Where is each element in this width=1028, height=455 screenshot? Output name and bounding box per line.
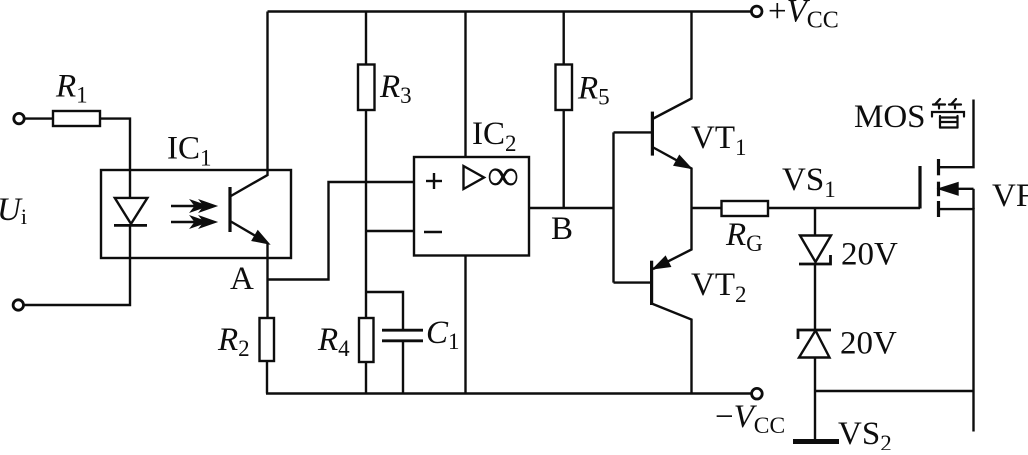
wire gate node to VS1 (814, 208, 816, 236)
wire +Vcc to IC2 (464, 12, 466, 158)
phototransistor emitter (230, 221, 268, 243)
transistor VT1 collector (652, 12, 691, 120)
wire base bus (612, 132, 614, 282)
wire RG to gate (768, 207, 920, 209)
wire +Vcc to R3 (365, 12, 367, 65)
resistor R3 (358, 65, 375, 111)
terminal +Vcc (751, 6, 762, 17)
wire R4 to -Vcc rail (365, 362, 367, 394)
svg-text:20V: 20V (840, 326, 897, 362)
light arrow lower (171, 221, 202, 223)
mosfet VF body-source link (972, 189, 974, 209)
wire VT1 base (614, 131, 653, 133)
wire inverting input (366, 230, 414, 232)
svg-text:A: A (230, 261, 254, 297)
mosfet VF drain (939, 100, 974, 168)
wire +Vcc to R5 (563, 12, 565, 65)
phototransistor base bar (228, 187, 231, 232)
mosfet VF body arrow (939, 188, 974, 190)
phototransistor collector (230, 12, 268, 197)
resistor RG (722, 201, 769, 216)
wire VS1 to VS2 (814, 264, 816, 330)
terminal input top (14, 113, 24, 123)
wire R1 to IC1 LED anode (100, 119, 130, 198)
wire VT2 base (614, 281, 652, 283)
transistor VT2 emitter (653, 208, 692, 269)
transistor VT2 base bar (650, 261, 653, 305)
mosfet VF gate bar (918, 166, 921, 209)
svg-text:B: B (551, 211, 573, 247)
wire zener junction to MOS source (815, 390, 974, 392)
wire R5 to node B (563, 110, 565, 208)
terminal bar below VS2 (793, 439, 839, 444)
terminal -Vcc (752, 388, 763, 399)
wire emitter to node A to R2 (266, 243, 268, 318)
minus sign input (424, 231, 442, 233)
resistor R4 (359, 318, 374, 362)
wire emitters to RG (692, 207, 722, 209)
wire input top to R1 (25, 117, 54, 119)
mosfet VF source (939, 209, 974, 431)
resistor R2 (260, 318, 275, 361)
transistor VT1 emitter (652, 147, 691, 208)
wire R3 to R4 (365, 110, 367, 318)
wire input bottom to LED cathode (24, 225, 130, 305)
op-to-coupler box IC1 (101, 170, 291, 258)
wire C1 to -Vcc rail (402, 341, 404, 394)
node A wire to comparator (268, 182, 415, 280)
zener VS1 (800, 236, 831, 263)
terminal input bottom (13, 300, 23, 310)
mosfet VF channel segments (937, 159, 940, 175)
comparator box IC2 (414, 157, 529, 256)
han glyph guan (tube) (932, 99, 964, 128)
wire branch to C1 (366, 292, 403, 330)
wire IC2 output node B (529, 207, 614, 209)
plus sign input (426, 180, 442, 182)
transistor VT1 base bar (651, 112, 654, 156)
transistor VT2 collector (652, 304, 692, 394)
wire VS2 down (814, 358, 816, 442)
wire R2 to -Vcc rail (266, 361, 268, 394)
wire IC2 to -Vcc rail (464, 256, 466, 394)
svg-text:20V: 20V (841, 237, 898, 273)
svg-text:VF: VF (992, 178, 1028, 214)
amplifier triangle symbol (464, 166, 485, 189)
diode LED inside IC1 (115, 198, 148, 224)
capacitor C1 (382, 329, 423, 332)
zener VS2 (798, 330, 831, 339)
resistor R1 (53, 111, 100, 126)
wire bottom -Vcc rail (266, 392, 751, 394)
wire top +Vcc rail (268, 10, 752, 12)
resistor R5 (556, 65, 573, 111)
svg-text:MOS: MOS (854, 99, 926, 135)
svg-text:∞: ∞ (487, 150, 519, 200)
light arrow upper (171, 205, 202, 207)
